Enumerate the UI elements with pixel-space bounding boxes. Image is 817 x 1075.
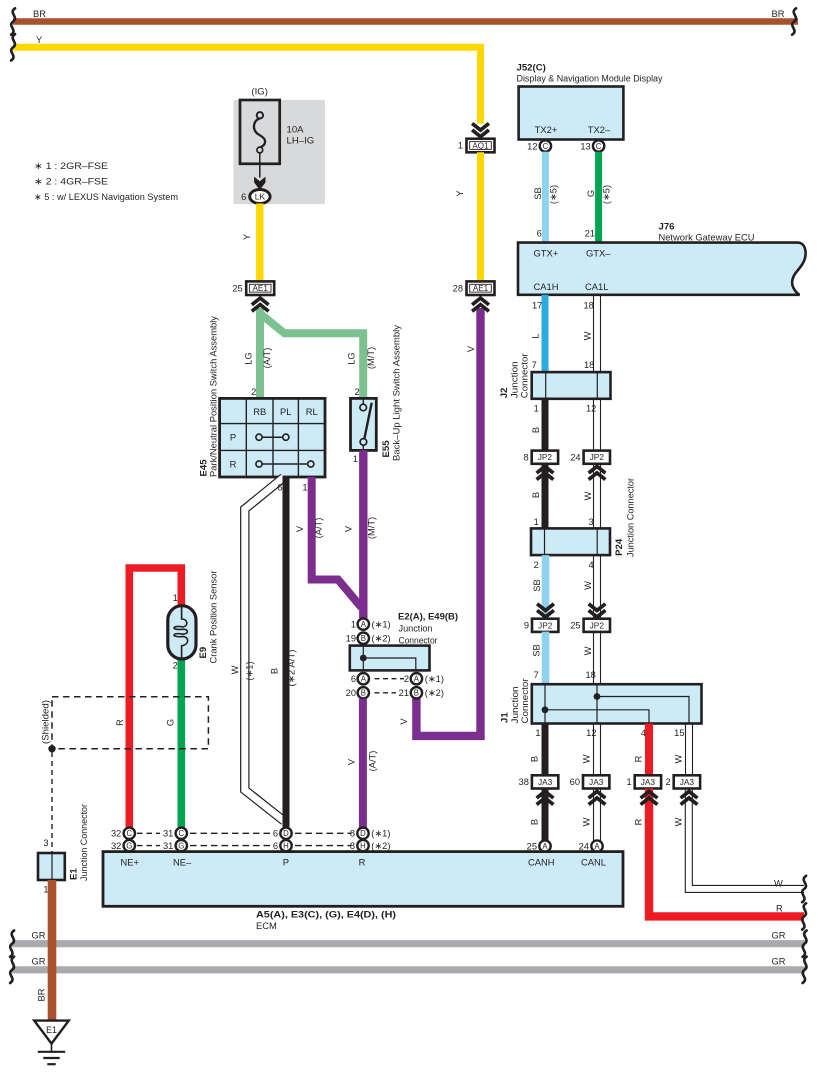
svg-text:R: R <box>634 818 644 825</box>
wire W (JA3 to ECM CANL) <box>582 789 601 841</box>
wire G (E9 pin2 to ECM pin 31C) <box>165 658 181 827</box>
svg-text:2: 2 <box>251 387 256 397</box>
svg-text:6: 6 <box>537 229 542 239</box>
svg-text:SB: SB <box>532 579 542 591</box>
svg-text:25: 25 <box>232 283 242 293</box>
svg-text:B: B <box>530 819 540 825</box>
svg-text:(∗1): (∗1) <box>245 661 255 680</box>
pin 19 B of E2 <box>346 633 391 644</box>
svg-text:25: 25 <box>570 621 580 631</box>
dashes 31G-6H <box>190 845 274 847</box>
connector LK pin 6 <box>241 190 270 204</box>
svg-text:∗ 2 : 4GR–FSE: ∗ 2 : 4GR–FSE <box>34 177 108 188</box>
svg-text:17: 17 <box>532 300 542 310</box>
svg-text:JA3: JA3 <box>641 777 656 787</box>
svg-text:R: R <box>115 719 125 726</box>
svg-text:GR: GR <box>32 930 46 940</box>
svg-text:2: 2 <box>173 661 178 671</box>
svg-text:1: 1 <box>458 141 463 151</box>
svg-text:V: V <box>399 718 409 725</box>
svg-text:GTX–: GTX– <box>586 248 611 259</box>
svg-text:B: B <box>531 492 541 498</box>
wire BR (E1 to ground) <box>37 880 53 1020</box>
svg-text:CA1L: CA1L <box>585 281 608 292</box>
svg-text:1: 1 <box>353 454 358 464</box>
wire BR (top bus) <box>13 9 798 22</box>
svg-text:(∗1): (∗1) <box>425 674 444 684</box>
wire B (J1 pin1 to JA3 pin38) <box>530 724 546 775</box>
svg-text:20: 20 <box>346 688 356 698</box>
chevron into JA3 pin 60 <box>589 791 606 804</box>
connector JA3 pin 38 <box>519 775 559 788</box>
svg-text:12: 12 <box>586 728 596 738</box>
svg-text:1: 1 <box>534 517 539 527</box>
connector JP2 pin 8 <box>524 451 559 464</box>
svg-text:B: B <box>361 634 366 643</box>
arrowhead into LK <box>254 177 265 190</box>
svg-text:6: 6 <box>241 192 246 202</box>
svg-text:P24: P24 <box>614 538 625 556</box>
svg-text:W: W <box>582 754 592 763</box>
pin 24 A (ECM CANL) <box>579 840 603 851</box>
wire R (JA3 pin1 down and right to page edge) <box>634 789 805 917</box>
svg-text:RL: RL <box>306 406 318 417</box>
pin 8 H of ECM <box>350 840 391 851</box>
svg-text:Junction Connector: Junction Connector <box>625 478 636 557</box>
svg-text:28: 28 <box>453 283 463 293</box>
svg-text:CANH: CANH <box>528 857 555 868</box>
wire B (JP2 to P24 pin1) <box>531 464 545 529</box>
svg-text:2: 2 <box>666 777 671 787</box>
svg-text:A: A <box>361 620 367 629</box>
chevron into JP2 pin 25 <box>589 604 606 617</box>
wire W (J2 pin12 to JP2 pin24) <box>594 399 601 451</box>
svg-text:15: 15 <box>674 728 684 738</box>
svg-text:AQ1: AQ1 <box>472 142 489 151</box>
wire V A/T (E2 pin20B to ECM pin 8D) <box>347 699 378 828</box>
svg-text:3: 3 <box>43 838 48 848</box>
svg-text:8: 8 <box>524 452 529 462</box>
svg-text:RB: RB <box>253 406 266 417</box>
junction node on shield drain <box>48 745 55 752</box>
svg-text:E2(A), E49(B): E2(A), E49(B) <box>398 612 458 623</box>
module J52(C) Display & Navigation Module Display <box>517 63 663 140</box>
chevron into JP2 pin 24 <box>589 466 606 479</box>
svg-text:24: 24 <box>570 452 580 462</box>
wire GR (lower bus) <box>12 957 805 970</box>
wire W (J76 CA1L to J2 pin18) <box>583 295 601 372</box>
svg-text:JA3: JA3 <box>538 777 553 787</box>
svg-text:(A/T): (A/T) <box>368 751 378 772</box>
svg-text:38: 38 <box>519 777 529 787</box>
pin 32 G of ECM <box>111 840 135 851</box>
break symbol left of BR wire <box>11 8 15 34</box>
junction node in J1 (CANH) <box>542 706 549 713</box>
svg-text:L: L <box>531 333 541 338</box>
svg-text:A: A <box>414 675 420 684</box>
svg-text:(A/T): (A/T) <box>262 348 272 369</box>
wire W (JA3 pin2 down and right to page edge) <box>674 789 805 893</box>
dashes pin20B to pin21B <box>375 692 397 694</box>
svg-text:W: W <box>674 817 684 826</box>
svg-text:GTX+: GTX+ <box>534 248 559 259</box>
svg-text:V: V <box>344 525 354 532</box>
svg-text:V: V <box>295 525 305 532</box>
svg-text:6: 6 <box>277 483 282 493</box>
svg-text:LG: LG <box>244 352 254 364</box>
svg-text:JP2: JP2 <box>538 452 553 462</box>
svg-text:10A: 10A <box>287 124 305 135</box>
pin 13 C of J52 <box>580 140 604 151</box>
dashes 32G-31G <box>137 845 160 847</box>
svg-text:C: C <box>596 142 602 151</box>
wire W (JP2 to P24 pin3) <box>583 464 601 529</box>
svg-text:W: W <box>582 817 592 826</box>
svg-text:32: 32 <box>111 829 121 839</box>
svg-text:SB: SB <box>533 187 543 199</box>
wire R (J1 pin4 to JA3 pin1) <box>634 724 650 775</box>
shield drain wire (dashed to E1) <box>51 752 53 853</box>
svg-text:AE1: AE1 <box>473 284 489 293</box>
wire Y (AQ1 to AE1 pin28) <box>455 152 480 281</box>
E45 contact P row <box>256 434 289 440</box>
wire fuse to LK <box>259 153 261 178</box>
svg-text:GR: GR <box>772 957 786 967</box>
svg-text:18: 18 <box>586 670 596 680</box>
note *1 2GR-FSE <box>34 161 108 172</box>
svg-text:B: B <box>414 689 419 698</box>
svg-text:AE1: AE1 <box>253 284 269 293</box>
svg-text:BR: BR <box>772 9 785 19</box>
svg-text:NE+: NE+ <box>121 857 140 868</box>
pin 8 D of ECM <box>350 828 391 839</box>
svg-text:JP2: JP2 <box>590 620 605 630</box>
svg-text:Park/Neutral Position Switch A: Park/Neutral Position Switch Assembly <box>208 316 219 477</box>
connector AE1 pin 25 <box>232 281 274 295</box>
fuse block shading <box>234 100 326 204</box>
pin 25 A (ECM CANH) <box>527 840 551 851</box>
chevron into JA3 pin 1 <box>641 791 658 804</box>
svg-text:(∗1): (∗1) <box>372 620 391 630</box>
svg-text:19: 19 <box>346 634 356 644</box>
svg-text:Junction: Junction <box>399 623 433 634</box>
svg-text:(IG): (IG) <box>251 86 268 97</box>
svg-text:1: 1 <box>535 728 540 738</box>
svg-text:G: G <box>126 842 132 851</box>
svg-text:NE–: NE– <box>173 857 192 868</box>
pin 31 C of ECM <box>163 828 187 839</box>
sensor E9 Crank Position Sensor <box>168 571 219 664</box>
svg-text:(M/T): (M/T) <box>367 517 377 539</box>
break symbol right of W wire <box>802 876 806 902</box>
svg-text:D: D <box>283 829 289 838</box>
wire R (E9 pin1 to ECM pin 32C) <box>115 568 181 827</box>
pin 21 B below E2 <box>399 687 444 698</box>
svg-text:31: 31 <box>163 841 173 851</box>
wire SB (JP2 pin9 to J1 pin7) <box>532 632 546 685</box>
wire Y (LK to AE1 pin25) <box>242 204 260 282</box>
svg-text:GR: GR <box>32 957 46 967</box>
svg-text:60: 60 <box>570 777 580 787</box>
ECM box A5(A) E3(C)(G) E4(D)(H) <box>103 852 623 931</box>
svg-text:B: B <box>531 427 541 433</box>
chevron into AE1 pin 25 <box>252 298 269 311</box>
wire LG (AE1-25 to E45 pin2) <box>244 308 273 398</box>
svg-text:32: 32 <box>111 841 121 851</box>
svg-text:D: D <box>360 829 366 838</box>
svg-text:W: W <box>230 665 240 674</box>
svg-text:Network Gateway ECU: Network Gateway ECU <box>659 232 755 243</box>
chevron into JA3 pin 38 <box>537 791 554 804</box>
svg-text:SB: SB <box>532 644 542 656</box>
svg-text:Back–Up Light Switch Assembly: Back–Up Light Switch Assembly <box>391 325 402 461</box>
svg-text:LG: LG <box>346 352 356 364</box>
svg-text:9: 9 <box>524 621 529 631</box>
break symbols GR lower <box>10 957 807 983</box>
svg-text:B: B <box>530 756 540 762</box>
wire V M/T (E55 pin1 to E2 pin1A) <box>344 450 377 618</box>
svg-text:JP2: JP2 <box>538 620 553 630</box>
wire L (J76 CA1H to J2 pin7) <box>531 295 546 372</box>
svg-text:7: 7 <box>532 360 537 370</box>
wire Y (top bus to AQ1) <box>13 35 481 124</box>
svg-text:(∗1): (∗1) <box>371 829 390 839</box>
svg-text:6: 6 <box>351 674 356 684</box>
svg-text:(∗2): (∗2) <box>372 634 391 644</box>
pin 31 G of ECM <box>163 840 187 851</box>
svg-text:4: 4 <box>589 560 594 570</box>
svg-text:G: G <box>165 719 175 726</box>
svg-text:JA3: JA3 <box>680 777 695 787</box>
svg-text:PL: PL <box>280 406 291 417</box>
svg-text:13: 13 <box>580 142 590 152</box>
svg-text:CANL: CANL <box>581 857 606 868</box>
dashes 32C-31C <box>137 832 160 834</box>
svg-text:Crank Position Sensor: Crank Position Sensor <box>208 571 219 664</box>
wire SB (J52 pin12 to J76 pin6) <box>533 152 558 244</box>
chevron into AE1 pin 28 <box>472 298 489 311</box>
wire B (E45 pin6 to ECM pin 6D) <box>270 477 297 827</box>
connector JA3 pin 1 <box>627 775 662 788</box>
svg-text:A: A <box>542 842 548 851</box>
svg-text:R: R <box>634 755 644 762</box>
wire B (JA3 to ECM CANH) <box>530 789 546 841</box>
junction connector J2 <box>499 353 611 413</box>
svg-text:Junction Connector: Junction Connector <box>78 804 89 881</box>
junction node in E2 <box>360 655 367 662</box>
svg-text:(∗5): (∗5) <box>548 185 558 204</box>
svg-text:1: 1 <box>627 777 632 787</box>
svg-text:Connector: Connector <box>399 635 438 646</box>
svg-text:W: W <box>674 754 684 763</box>
wire G (J52 pin13 to J76 pin21) <box>585 152 612 244</box>
dashes 6D-8D <box>295 832 351 834</box>
svg-text:W: W <box>774 879 783 889</box>
svg-text:E1: E1 <box>46 1025 57 1035</box>
svg-text:18: 18 <box>584 300 594 310</box>
pin 1 A of E2 <box>351 618 391 629</box>
wire GR (upper bus) <box>12 930 805 943</box>
svg-text:V: V <box>466 345 476 352</box>
svg-text:G: G <box>178 842 184 851</box>
svg-text:W: W <box>583 646 593 655</box>
svg-text:C: C <box>178 829 184 838</box>
wire V A/T (E45 pin1 to E2 pin1A) <box>295 477 362 608</box>
fuse 10A LH-IG <box>240 86 314 164</box>
junction connector P24 <box>531 478 636 570</box>
pin 6 H of ECM <box>273 840 292 851</box>
svg-text:C: C <box>543 142 549 151</box>
pin 12 C of J52 <box>527 140 551 151</box>
junction connector E2(A) E49(B) <box>350 612 458 671</box>
dashes 6H-8H <box>295 845 351 847</box>
dashes 31C-6D <box>190 832 274 834</box>
connector JP2 pin 25 <box>570 619 610 632</box>
svg-text:G: G <box>586 190 596 197</box>
wire W (P24 pin4 to JP2 pin25) <box>583 555 601 619</box>
junction connector J1 <box>500 679 702 724</box>
svg-text:R: R <box>230 458 237 469</box>
switch assembly E45 Park/Neutral Position Switch <box>199 316 326 477</box>
svg-text:JA3: JA3 <box>589 777 604 787</box>
svg-text:H: H <box>283 842 289 851</box>
svg-text:B: B <box>270 668 280 674</box>
svg-text:B: B <box>361 689 366 698</box>
note *2 4GR-FSE <box>34 177 108 188</box>
svg-text:(∗2 A/T): (∗2 A/T) <box>287 650 297 687</box>
svg-text:2: 2 <box>404 674 409 684</box>
wire W (J1 pin12 to JA3 pin60) <box>582 724 601 775</box>
wire W (J1 pin15 to JA3 pin2) <box>674 724 693 775</box>
svg-text:P: P <box>230 432 236 443</box>
chevron into JP2 pin 9 <box>537 604 554 617</box>
svg-text:JP2: JP2 <box>590 452 605 462</box>
svg-text:H: H <box>360 842 366 851</box>
connector JP2 pin 9 <box>524 619 559 632</box>
pin 2 A below E2 <box>404 673 444 684</box>
E45 contact R row <box>256 461 314 467</box>
svg-text:1: 1 <box>302 483 307 493</box>
svg-text:Display & Navigation Module Di: Display & Navigation Module Display <box>517 73 663 84</box>
chevron into JP2 pin 8 <box>537 466 554 479</box>
pin 6 D of ECM <box>273 828 292 839</box>
svg-text:4: 4 <box>641 728 646 738</box>
break symbol right of BR wire <box>792 8 796 34</box>
svg-text:A5(A), E3(C), (G), E4(D), (H): A5(A), E3(C), (G), E4(D), (H) <box>256 910 396 921</box>
svg-text:LH–IG: LH–IG <box>287 136 315 147</box>
wire W *1 (E45 pin6 alternative, outlined) <box>230 478 284 822</box>
svg-text:3: 3 <box>589 517 594 527</box>
svg-text:7: 7 <box>534 670 539 680</box>
svg-text:TX2–: TX2– <box>588 124 611 135</box>
svg-text:R: R <box>776 904 783 914</box>
svg-text:2: 2 <box>534 560 539 570</box>
svg-text:W: W <box>583 491 593 500</box>
pin 6 A below E2 <box>351 673 369 684</box>
svg-text:BR: BR <box>33 9 46 19</box>
svg-text:W: W <box>583 331 593 340</box>
svg-text:TX2+: TX2+ <box>535 124 558 135</box>
svg-text:21: 21 <box>399 688 409 698</box>
svg-text:25: 25 <box>527 842 537 852</box>
svg-text:V: V <box>347 758 357 765</box>
svg-text:W: W <box>583 581 593 590</box>
svg-text:24: 24 <box>579 842 589 852</box>
svg-text:Y: Y <box>455 190 465 196</box>
ground E1 <box>34 1021 69 1065</box>
wire SB (P24 pin2 to JP2 pin9) <box>532 555 546 619</box>
svg-text:P: P <box>283 857 289 868</box>
svg-text:R: R <box>359 857 366 868</box>
junction connector E1 <box>38 804 89 895</box>
svg-text:(M/T): (M/T) <box>366 347 376 369</box>
wire LG (branch to E55 pin2) <box>260 314 376 399</box>
svg-text:(Shielded): (Shielded) <box>40 700 51 744</box>
connector AE1 pin 28 <box>453 281 495 295</box>
svg-text:A: A <box>594 842 600 851</box>
pin 20 B below E2 <box>346 687 369 698</box>
break symbol left of Y wire <box>11 34 15 60</box>
svg-text:1: 1 <box>173 593 178 603</box>
svg-text:CA1H: CA1H <box>534 281 559 292</box>
svg-text:21: 21 <box>585 229 595 239</box>
svg-text:12: 12 <box>586 404 596 414</box>
module J76 Network Gateway ECU <box>518 222 806 311</box>
connector JA3 pin 2 <box>666 775 701 788</box>
wire V (AE1-28 down, elbow to junction connector E2 pin 21) <box>399 308 481 736</box>
break symbols GR upper <box>10 931 807 957</box>
svg-text:∗ 5 : w/ LEXUS Navigation Syst: ∗ 5 : w/ LEXUS Navigation System <box>34 192 178 203</box>
wire W (JP2 pin25 to J1 pin18) <box>583 632 601 685</box>
break symbol right of R wire <box>802 903 806 929</box>
dashes pin6A to pin2A <box>375 678 405 680</box>
pin 32 C of ECM <box>111 828 135 839</box>
svg-text:(A/T): (A/T) <box>314 518 324 539</box>
svg-text:C: C <box>126 829 132 838</box>
svg-text:6: 6 <box>273 829 278 839</box>
svg-text:(∗2): (∗2) <box>371 841 390 851</box>
svg-text:31: 31 <box>163 829 173 839</box>
note *5 w/ LEXUS Navigation System <box>34 192 178 203</box>
svg-text:GR: GR <box>772 930 786 940</box>
connector JP2 pin 24 <box>570 451 610 464</box>
svg-text:1: 1 <box>351 620 356 630</box>
svg-text:Connector: Connector <box>519 353 530 398</box>
switch E55 Back-Up Light Switch <box>351 325 402 464</box>
svg-text:∗ 1 : 2GR–FSE: ∗ 1 : 2GR–FSE <box>34 161 108 172</box>
svg-text:(∗2): (∗2) <box>425 688 444 698</box>
svg-text:Y: Y <box>242 234 252 240</box>
svg-text:(∗5): (∗5) <box>602 185 612 204</box>
svg-text:A: A <box>361 675 367 684</box>
svg-text:12: 12 <box>527 142 537 152</box>
svg-text:6: 6 <box>273 841 278 851</box>
svg-text:LK: LK <box>255 192 266 202</box>
wire B (J2 pin1 to JP2 pin8) <box>531 399 545 451</box>
svg-text:BR: BR <box>37 988 47 1001</box>
chevron into AQ1 <box>472 123 489 136</box>
shield box (Shielded) <box>40 697 209 749</box>
svg-text:2: 2 <box>355 387 360 397</box>
svg-text:Y: Y <box>36 35 42 45</box>
svg-text:ECM: ECM <box>256 920 277 931</box>
connector AQ1 pin 1 <box>458 139 495 153</box>
svg-text:18: 18 <box>584 360 594 370</box>
chevron into JA3 pin 2 <box>681 791 698 804</box>
connector JA3 pin 60 <box>570 775 610 788</box>
svg-text:1: 1 <box>534 404 539 414</box>
junction node in J1 (CANL) <box>594 693 601 700</box>
